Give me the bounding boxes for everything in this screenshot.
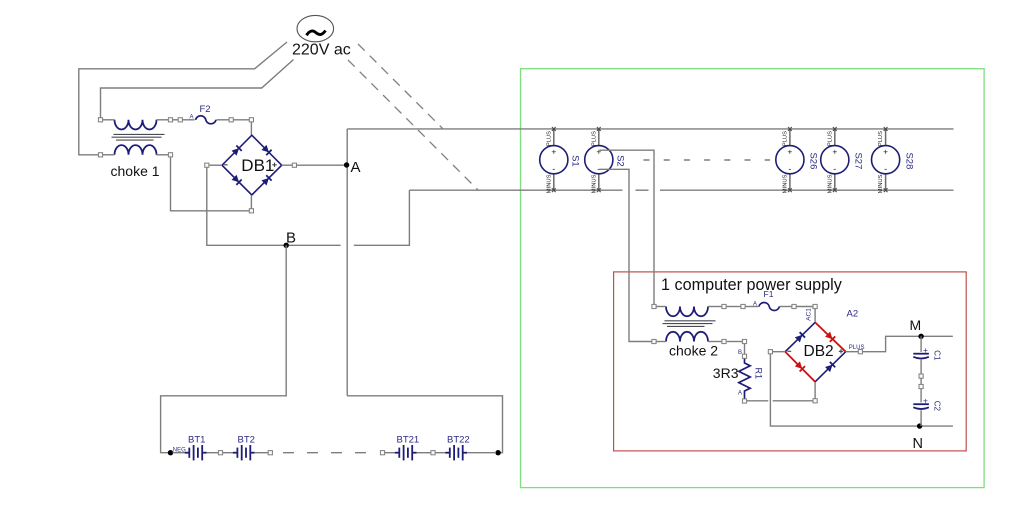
wire: socket row ellipsis dashes <box>644 159 771 161</box>
GROUP: frames <box>521 69 985 488</box>
svg-text:+: + <box>596 147 601 157</box>
DB1 diode top-left <box>231 145 241 155</box>
svg-text:MINUS: MINUS <box>827 174 833 193</box>
svg-text:PLUS: PLUS <box>546 131 552 146</box>
wire: DB2 left stub <box>773 351 786 353</box>
svg-text:-: - <box>788 164 791 174</box>
svg-text:MINUS: MINUS <box>546 174 552 193</box>
svg-text:S2: S2 <box>615 155 626 167</box>
choke 2 top winding <box>666 307 708 317</box>
wire: source line 1 diagonal <box>79 42 287 155</box>
wire: MINUS bus segment 1 <box>409 189 622 191</box>
DB1 plus mark <box>272 163 276 167</box>
svg-text:C2: C2 <box>932 401 941 412</box>
svg-text:S27: S27 <box>853 152 864 169</box>
svg-text:+: + <box>923 345 928 355</box>
battery terminal squares <box>218 451 435 455</box>
svg-text:-: - <box>833 164 836 174</box>
wire: DB1 right stub <box>282 164 293 166</box>
wire: resistor bottom to DB2 bottom <box>747 382 815 401</box>
green enclosure box <box>521 69 985 488</box>
svg-text:-: - <box>884 164 887 174</box>
choke 1 core lines <box>112 134 165 140</box>
GROUP: leftwires <box>79 42 294 155</box>
choke 2 core lines <box>663 321 716 327</box>
wire: DB2 minus down to N rail <box>770 354 953 426</box>
svg-text:BT22: BT22 <box>447 435 470 446</box>
svg-text:PLUS: PLUS <box>878 131 884 146</box>
wire: BT2 to square <box>255 452 269 454</box>
battery BT22 <box>445 445 467 460</box>
svg-text:R1: R1 <box>753 368 763 380</box>
GROUP: source <box>292 15 478 190</box>
wire: node A vertical <box>346 129 348 396</box>
wire: dashed diagonal to MINUS bus <box>348 60 478 190</box>
svg-text:MINUS: MINUS <box>591 174 597 193</box>
node dot battery right <box>495 450 500 455</box>
svg-text:-: - <box>552 164 555 174</box>
wire: A down to battery right <box>347 396 502 453</box>
bridge DB2 diamond blue edges <box>785 322 846 381</box>
AC source tilde <box>307 31 326 36</box>
svg-text:BT21: BT21 <box>397 435 420 446</box>
svg-text:220V ac: 220V ac <box>292 42 351 59</box>
socket S26 <box>776 127 819 193</box>
wire: C1 to C2 <box>920 360 922 403</box>
battery BT1 <box>185 445 207 460</box>
wire: top winding leads <box>103 120 252 135</box>
node N dot <box>917 423 922 428</box>
wire: C2 to N <box>920 410 922 426</box>
GROUP: db1 <box>205 129 410 396</box>
psu terminal squares <box>652 304 923 403</box>
svg-text:AC1: AC1 <box>805 308 812 321</box>
battery BT21 <box>395 445 417 460</box>
svg-text:M: M <box>910 317 922 333</box>
wire: DB1 right to node A <box>297 164 348 166</box>
capacitor C1 <box>913 354 929 359</box>
DB1 diode top-right <box>261 145 271 155</box>
wire: BT21 to square <box>417 452 431 454</box>
red enclosure box (computer power supply) <box>614 272 967 451</box>
wire: M down to C1 <box>920 336 922 352</box>
bridge DB1 diamond <box>222 135 282 195</box>
choke 1 bottom winding <box>115 145 157 155</box>
svg-text:F1: F1 <box>764 289 774 299</box>
terminal squares choke1/F2 row <box>98 118 253 157</box>
capacitor C2 <box>913 404 929 409</box>
svg-text:DB1: DB1 <box>241 156 274 175</box>
svg-text:PLUS: PLUS <box>591 131 597 146</box>
wire: DB1 left down to B rail <box>207 167 341 245</box>
wire: BT22 to right dot <box>467 452 496 454</box>
svg-text:N: N <box>913 436 923 452</box>
wire: choke2 top leads <box>656 307 815 323</box>
svg-text:MINUS: MINUS <box>878 174 884 193</box>
wire: B down to battery left <box>161 245 287 452</box>
wire: DB1 left stub <box>209 164 222 166</box>
socket S27 <box>821 127 864 193</box>
svg-text:choke 1: choke 1 <box>111 163 160 179</box>
wire: MINUS bus segment 2 <box>636 189 649 191</box>
svg-text:S28: S28 <box>903 152 914 169</box>
bridge DB2 diamond red edges <box>785 322 846 381</box>
wire: square to BT2 <box>223 452 233 454</box>
choke 1 top winding <box>115 120 157 130</box>
DB1 minus mark <box>224 164 228 166</box>
DB1 diode bottom-right <box>261 175 271 185</box>
svg-text:F2: F2 <box>200 104 211 115</box>
svg-text:B: B <box>738 350 742 356</box>
GROUP: buses <box>347 129 953 190</box>
svg-text:S26: S26 <box>808 152 819 169</box>
wire: PLUS bus <box>347 128 953 130</box>
DB2 diode bottom-left red <box>795 361 805 371</box>
svg-text:PLUS: PLUS <box>783 131 789 146</box>
fuse F2 <box>196 116 216 124</box>
GROUP: sockets <box>540 127 915 342</box>
svg-text:1 computer power supply: 1 computer power supply <box>661 276 843 294</box>
svg-text:choke 2: choke 2 <box>669 343 718 359</box>
DB2 diode bottom-right blue <box>825 362 835 372</box>
wire: MINUS bus segment 3 <box>660 189 954 191</box>
node A dot <box>344 162 349 167</box>
wire: square to BT21 <box>385 452 395 454</box>
GROUP: battery <box>161 245 503 460</box>
wire: B rail right segment <box>354 190 410 245</box>
svg-text:3R3: 3R3 <box>713 365 739 381</box>
svg-text:BT2: BT2 <box>238 435 255 446</box>
wire: NEG to BT1 <box>173 452 186 454</box>
wire: dashed battery ellipsis <box>283 452 371 454</box>
choke 2 bottom winding <box>666 332 708 342</box>
wire: DB2 plus to M <box>863 336 953 351</box>
svg-text:PLUS: PLUS <box>827 131 833 146</box>
svg-text:+: + <box>883 147 888 157</box>
socket S2 <box>585 127 626 193</box>
svg-text:BT1: BT1 <box>188 435 205 446</box>
node M dot <box>918 334 923 339</box>
wire: DB1 bottom stub <box>250 195 252 209</box>
svg-text:A: A <box>738 391 742 397</box>
socket S1 <box>540 127 581 193</box>
battery BT2 <box>233 445 255 460</box>
fuse F1 <box>759 302 779 310</box>
wire: source line 2 diagonal <box>101 60 294 118</box>
svg-text:A: A <box>753 302 757 308</box>
wire: bottom winding leads <box>103 155 250 211</box>
GROUP: choke1 <box>98 104 253 211</box>
wire: DB2 right stub <box>846 351 859 353</box>
AC source V1 circle <box>297 15 334 41</box>
svg-text:+: + <box>923 396 928 406</box>
DB2 diode top-left blue <box>795 332 805 342</box>
svg-text:+: + <box>551 147 556 157</box>
svg-text:+: + <box>787 147 792 157</box>
svg-text:A: A <box>351 159 361 176</box>
svg-text:B: B <box>286 230 296 247</box>
wire: S2 minus feed to choke2 bottom <box>600 169 652 341</box>
svg-text:A: A <box>190 115 194 121</box>
svg-text:C1: C1 <box>932 350 941 361</box>
wire: square to BT22 <box>435 452 445 454</box>
DB2 minus mark <box>787 350 791 352</box>
svg-text:S1: S1 <box>570 155 581 167</box>
socket S28 <box>872 127 915 193</box>
wire: S2 plus feed to choke2 top <box>600 150 655 304</box>
GROUP: psu <box>652 289 953 452</box>
wire: BT1 to square <box>207 452 219 454</box>
svg-text:MINUS: MINUS <box>783 174 789 193</box>
svg-text:+: + <box>832 147 837 157</box>
wire: choke2 bottom leads <box>656 342 744 355</box>
DB1 terminal squares <box>205 163 297 213</box>
node NEG dot <box>168 450 173 455</box>
DB2 plus mark <box>839 349 843 353</box>
resistor 3R3 zigzag <box>739 358 750 399</box>
svg-text:DB2: DB2 <box>804 343 834 360</box>
DB2 diode top-right red <box>825 331 835 341</box>
DB1 diode bottom-left <box>231 175 241 185</box>
node B dot <box>284 243 289 248</box>
svg-text:A2: A2 <box>847 309 859 320</box>
wire: dashed diagonal to PLUS bus <box>358 44 443 129</box>
